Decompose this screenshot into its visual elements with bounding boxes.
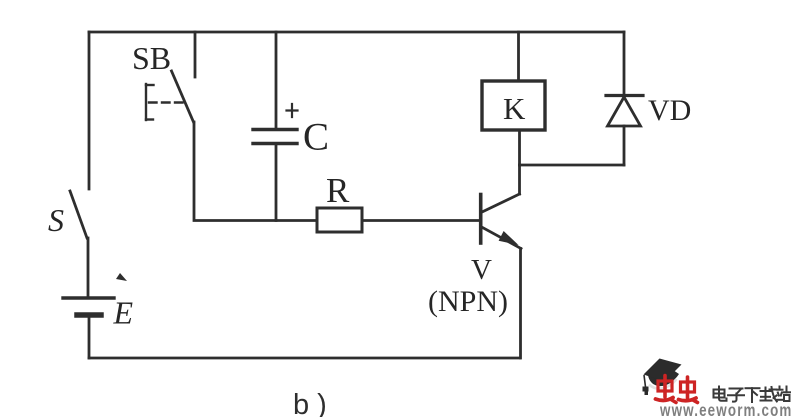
svg-text:www.eeworm.com: www.eeworm.com: [659, 401, 792, 417]
label SB: [132, 40, 171, 76]
svg-text:C: C: [303, 116, 329, 159]
wire top rail to K: [517, 32, 520, 81]
diode VD: [606, 32, 643, 165]
svg-text:SB: SB: [132, 40, 171, 76]
logo text chongchong (red worm characters): [656, 376, 698, 403]
battery polarity arrow mark: [116, 273, 127, 281]
pushbutton SB: [146, 32, 195, 122]
wire emitter to bottom rail: [519, 249, 522, 359]
wire left rail upper: [88, 32, 91, 189]
capacitor plus polarity mark: [287, 104, 298, 117]
label (NPN): [428, 285, 508, 318]
svg-text:V: V: [471, 254, 492, 286]
logo graduation cap: [643, 359, 682, 396]
wire R to transistor base: [362, 219, 479, 222]
label R: [326, 171, 350, 210]
svg-text:(NPN): (NPN): [428, 285, 508, 318]
relay coil K: [482, 81, 545, 130]
battery E: [63, 298, 114, 315]
logo text dianzi xiazaizhan (electronics download site): [714, 387, 791, 403]
wire top rail: [89, 31, 624, 34]
wire switch to battery: [87, 238, 90, 296]
label V: [471, 254, 492, 286]
svg-text:R: R: [326, 171, 350, 210]
svg-text:S: S: [48, 202, 64, 238]
wire SB to base node: [194, 122, 317, 221]
transistor V (NPN): [481, 194, 521, 249]
wire bottom rail: [89, 357, 520, 360]
switch S: [70, 191, 87, 238]
svg-text:K: K: [503, 91, 526, 126]
label VD: [648, 94, 691, 127]
wire collector node to diode: [520, 164, 625, 167]
label S: [48, 202, 64, 238]
resistor R: [317, 208, 362, 232]
svg-text:E: E: [113, 295, 134, 331]
logo url www.eeworm.com: [659, 401, 792, 417]
label K: [503, 91, 526, 126]
capacitor C: [253, 32, 297, 221]
svg-text:VD: VD: [648, 94, 691, 127]
svg-text:b ): b ): [293, 389, 327, 417]
caption b): [293, 389, 327, 417]
label C: [303, 116, 329, 159]
wire node to relay K: [518, 130, 521, 165]
wire collector to node: [518, 165, 521, 194]
label E: [113, 295, 134, 331]
wire battery to bottom rail: [88, 316, 91, 358]
